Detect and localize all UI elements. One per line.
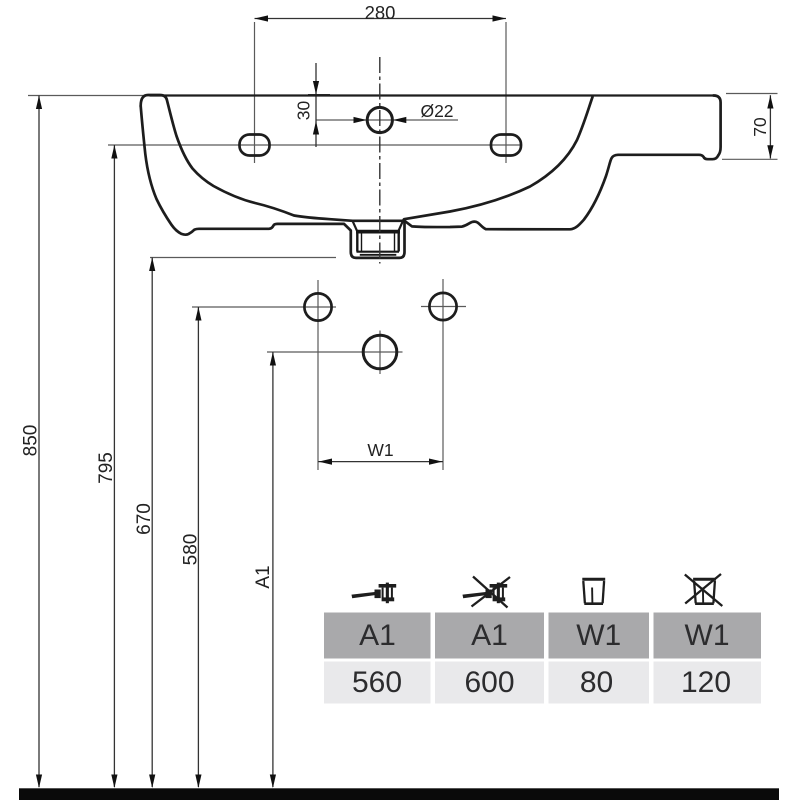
svg-text:30: 30 — [294, 101, 314, 121]
horizontal centerline through oval holes — [108, 144, 521, 146]
vertical cross left circle down to W1 — [317, 280, 319, 470]
left hump top + inner bowl curve down to drain — [141, 95, 403, 221]
70 arrows — [767, 95, 773, 108]
30 arrows — [313, 81, 319, 94]
table — [324, 613, 761, 704]
diameter arrows — [354, 117, 367, 123]
thin reference lines — [28, 22, 778, 470]
faucet circle — [367, 107, 392, 132]
svg-text:120: 120 — [681, 666, 731, 699]
icon cup crossed (col 4) — [685, 574, 723, 606]
bottom arrows of vertical lines — [36, 775, 42, 789]
svg-text:600: 600 — [464, 666, 514, 699]
30 tick on rim — [308, 94, 330, 96]
right apron edge — [714, 96, 721, 156]
right oval hole — [491, 135, 521, 156]
svg-text:70: 70 — [750, 117, 770, 137]
70 top extension — [726, 93, 778, 95]
795 line — [113, 145, 115, 787]
svg-text:670: 670 — [134, 503, 155, 535]
svg-text:W1: W1 — [367, 440, 393, 460]
icon cup (col 3) — [582, 579, 605, 604]
icon tap (col 1) — [352, 583, 397, 604]
icon tap crossed (col 2) — [463, 577, 511, 608]
svg-text:80: 80 — [580, 666, 613, 699]
horizontal line drain bottom (670) — [150, 257, 336, 259]
hump left edge + bottom outer line + drain funnel outer — [141, 106, 405, 258]
svg-text:A1: A1 — [471, 619, 508, 652]
vertical cross right circle down to W1 — [442, 279, 444, 470]
70 bottom extension — [722, 158, 778, 160]
svg-text:Ø22: Ø22 — [420, 101, 453, 121]
center mounting circle — [363, 335, 397, 369]
670 line — [151, 258, 153, 788]
svg-text:A1: A1 — [359, 619, 396, 652]
horizontal line center circle (A1) — [267, 351, 403, 353]
580 line — [197, 307, 199, 787]
280 left extension through oval — [254, 22, 256, 163]
drain nut — [356, 232, 400, 255]
faucet centerline dash-dot — [379, 57, 381, 264]
horizontal line faucet circle / Ø22 leader — [317, 119, 459, 121]
vertical cross center circle — [379, 331, 381, 375]
280 arrows — [255, 15, 269, 21]
holes — [240, 107, 522, 368]
left oval hole — [240, 135, 270, 156]
top arrows of vertical lines — [36, 96, 42, 110]
drain inner mouth walls — [353, 221, 358, 231]
extension line rim left — [28, 95, 152, 97]
280 dimension line — [255, 18, 507, 20]
right mounting circle — [429, 293, 456, 320]
rim top line — [150, 94, 716, 96]
A1 line — [272, 352, 274, 787]
70 dimension line — [769, 95, 771, 158]
svg-text:580: 580 — [181, 534, 202, 566]
svg-text:280: 280 — [365, 2, 396, 23]
outer bottom right line up to apron — [405, 155, 719, 230]
svg-text:A1: A1 — [253, 565, 274, 588]
850 line — [38, 96, 40, 788]
svg-text:795: 795 — [96, 452, 117, 484]
right inner bowl curve — [403, 97, 593, 221]
W1 dimension line — [318, 461, 443, 463]
floor bar — [19, 788, 779, 800]
svg-text:W1: W1 — [576, 619, 621, 652]
svg-text:850: 850 — [21, 425, 42, 457]
horizontal line left circle (580) — [192, 306, 336, 308]
dimension texts — [21, 2, 771, 589]
left mounting circle — [304, 293, 331, 320]
svg-text:560: 560 — [352, 666, 402, 699]
svg-text:W1: W1 — [685, 619, 730, 652]
30 dimension line — [315, 63, 317, 147]
W1 arrows — [319, 459, 333, 465]
sink outline — [141, 95, 721, 258]
horizontal cross right circle — [421, 306, 466, 308]
280 right extension through oval — [505, 22, 507, 163]
